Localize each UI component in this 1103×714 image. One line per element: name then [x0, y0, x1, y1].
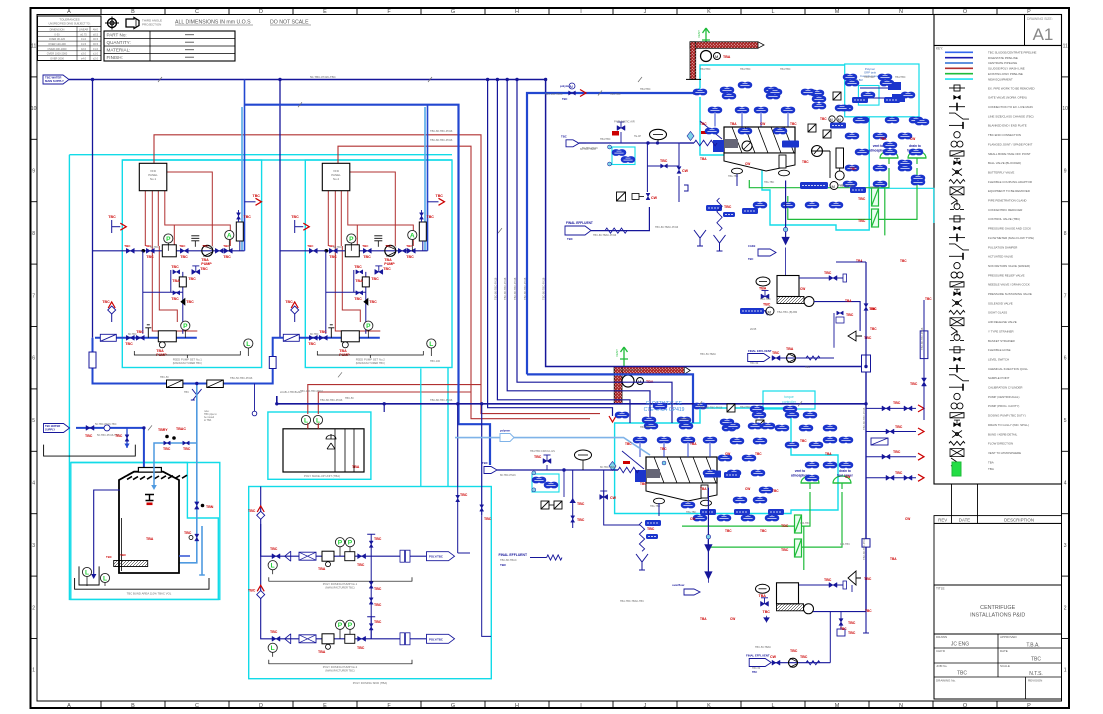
svg-text:OVER 30-120: OVER 30-120: [49, 37, 66, 41]
VFD panel No.2 red wiring: [328, 172, 413, 331]
VFD control panel No.1: [139, 163, 167, 190]
dosing train 1 valve in: [272, 554, 280, 559]
tank roof hatch: [121, 475, 187, 479]
arrow tank inlet: [141, 483, 147, 488]
skid right riser B: [482, 515, 491, 636]
svg-text:BUND / KERB DETAIL: BUND / KERB DETAIL: [988, 432, 1018, 436]
svg-text:TBC: TBC: [805, 366, 810, 369]
svg-text:5: 5: [1064, 418, 1067, 424]
svg-text:TBC: TBC: [772, 351, 780, 355]
dosing red drop b: [317, 423, 319, 429]
svg-text:POLY/TBC: POLY/TBC: [429, 637, 443, 641]
svg-text:FINAL EFFLUENT: FINAL EFFLUENT: [748, 349, 772, 353]
svg-text:80-TBC-TBAC: 80-TBC-TBAC: [580, 148, 596, 151]
svg-text:vent to: vent to: [873, 144, 884, 148]
svg-text:150-TBC: 150-TBC: [870, 186, 880, 189]
upper feed damper: [650, 129, 667, 139]
svg-text:TBC: TBC: [362, 244, 369, 248]
dose point skid 1: [145, 325, 151, 338]
svg-text:POLY DOSING PUMP No.2: POLY DOSING PUMP No.2: [323, 665, 358, 669]
wall upper arrow end: [758, 42, 764, 48]
enclosure polymer dosing skid: [268, 412, 371, 479]
flag tank water: [44, 424, 70, 433]
svg-text:TBC: TBC: [660, 159, 668, 163]
instrument box upper feed: [612, 147, 635, 165]
flow meter skid 1: [191, 236, 199, 247]
svg-text:TBC: TBC: [248, 588, 256, 592]
dosing train 2 outlet flag: [427, 634, 455, 643]
skip No.1 discharge line: [814, 302, 860, 331]
lower feed bubbles box: [532, 477, 546, 483]
svg-text:TBC: TBC: [106, 555, 112, 559]
tag upper e: [805, 182, 821, 188]
svg-text:NEEDLE VALVE / DRAIN COCK: NEEDLE VALVE / DRAIN COCK: [988, 283, 1030, 287]
svg-text:TBC: TBC: [357, 646, 365, 650]
svg-text:TBC: TBC: [865, 609, 872, 613]
svg-text:A: A: [67, 703, 71, 709]
cake skip No.2: [705, 488, 813, 622]
svg-text:TBC: TBC: [500, 563, 507, 567]
skip No.2 discharge line: [813, 612, 869, 633]
svg-text:8: 8: [32, 231, 35, 237]
dosing train 1 flex: [299, 552, 316, 560]
svg-text:APPROVED: APPROVED: [1000, 635, 1018, 639]
svg-text:TBA-TBC: TBA-TBC: [764, 181, 775, 184]
svg-text:50-TBC: 50-TBC: [333, 246, 342, 249]
svg-text:9: 9: [32, 169, 35, 175]
svg-text:OVER 1000-2000: OVER 1000-2000: [47, 52, 68, 56]
svg-text:TBC-80-TBC-PN16: TBC-80-TBC-PN16: [542, 277, 546, 300]
pipe bottom royal header: [93, 338, 279, 384]
svg-text:SOLENOID VALVE: SOLENOID VALVE: [988, 301, 1013, 305]
upper feed squares: [617, 192, 626, 201]
pipe riser bundle A: [546, 80, 866, 367]
svg-text:CW: CW: [760, 122, 765, 126]
isolation valve skid 2 inlet: [309, 248, 317, 253]
svg-text:TBC: TBC: [700, 122, 707, 126]
lower feed gate valve: [543, 459, 551, 464]
instrument bubbles centrifuge No.2: [633, 406, 837, 521]
svg-text:TE-4P: TE-4P: [634, 135, 641, 138]
feed line flowmeter: [104, 425, 110, 431]
svg-text:FINAL EFFLUENT: FINAL EFFLUENT: [499, 553, 528, 557]
svg-text:TBC: TBC: [406, 244, 413, 248]
check valve skid 2: [329, 248, 337, 253]
dosing train 1 pump: [322, 551, 334, 561]
svg-text:TBA/TBC: TBA/TBC: [864, 76, 875, 79]
pipe skid No.1 drop: [244, 80, 246, 251]
enclosure centrifuge No.1 controls: [845, 64, 919, 117]
wall upper horizontal: [690, 42, 758, 49]
svg-text:TBC: TBC: [124, 244, 131, 248]
flex drain lower: [639, 522, 644, 551]
svg-text:E: E: [323, 9, 327, 15]
riser takeoff 3: [866, 456, 916, 458]
controls solid tags: [888, 82, 901, 90]
tag lower e: [724, 472, 740, 478]
svg-text:REV: REV: [938, 518, 947, 523]
svg-text:TBC-80-TBC-PN16: TBC-80-TBC-PN16: [920, 327, 924, 350]
svg-text:CW: CW: [610, 496, 617, 500]
svg-text:OVER 2000: OVER 2000: [50, 57, 64, 61]
svg-text:80-TBC-PN16: 80-TBC-PN16: [500, 474, 516, 477]
riser inline strainer mid: [862, 355, 871, 372]
skip No.1 top line: [799, 277, 843, 279]
upper feed flag: [566, 140, 579, 147]
pipe tank feed: [76, 428, 144, 483]
svg-text:TBC-80-TBAC: TBC-80-TBAC: [500, 558, 517, 562]
macerator skid 2: [345, 245, 359, 257]
svg-text:TBC-50: TBC-50: [345, 397, 354, 400]
svg-text:AIR RELEASE VALVE: AIR RELEASE VALVE: [988, 320, 1017, 324]
svg-text:TBC SLUDGE/CENTRATE PIPELINE: TBC SLUDGE/CENTRATE PIPELINE: [988, 51, 1037, 55]
svg-text:TBC: TBC: [427, 215, 435, 219]
svg-text:CW: CW: [682, 169, 689, 173]
svg-text:TBC: TBC: [846, 313, 854, 317]
svg-text:CONCENTRIC REDUCER: CONCENTRIC REDUCER: [988, 208, 1022, 212]
svg-text:TBA/TBC: TBA/TBC: [640, 88, 651, 91]
svg-text:A: A: [410, 232, 415, 239]
pipe riser bundle C: [507, 80, 650, 424]
svg-text:TBC-80-TBC-PN16: TBC-80-TBC-PN16: [700, 405, 723, 409]
riser basket strainer: [871, 438, 888, 445]
pipe horizontal labels: [320, 129, 723, 410]
junction dot upper feed: [656, 141, 659, 144]
title block signature rows: [934, 634, 1062, 699]
svg-text:CW: CW: [745, 487, 750, 491]
svg-text:L: L: [771, 703, 774, 709]
centrifuge No.1 flex inlet: [694, 140, 717, 146]
junction dot lower feed: [562, 468, 565, 471]
svg-text:SUPPLY: SUPPLY: [45, 427, 55, 431]
pipe drop to pump skid A: [457, 404, 459, 487]
skip No.2 top line: [799, 584, 843, 586]
svg-text:TBC: TBC: [319, 330, 327, 334]
svg-text:POLY DOSING PUMP No.1: POLY DOSING PUMP No.1: [323, 582, 358, 586]
svg-text:TBC: TBC: [790, 122, 797, 126]
svg-text:L: L: [271, 645, 275, 652]
actuated valve skid 1: [192, 269, 200, 274]
svg-text:TBC: TBC: [102, 300, 110, 304]
sight glass column: [920, 331, 928, 359]
lower feed drain branch B: [604, 470, 640, 525]
svg-text:INSTALLATIONS P&ID: INSTALLATIONS P&ID: [970, 613, 1025, 619]
svg-text:TBA/TBC: TBA/TBC: [780, 68, 791, 71]
svg-text:CHK'D: CHK'D: [936, 649, 946, 653]
svg-text:TBN: TBN: [206, 505, 214, 509]
svg-text:TBC-100-TBAC: TBC-100-TBAC: [545, 93, 563, 96]
svg-text:2: 2: [32, 605, 35, 611]
tank heater element: [114, 561, 148, 567]
svg-text:±0.5: ±0.5: [93, 42, 99, 46]
valve skid 2 b: [363, 248, 371, 253]
svg-text:SLUDGE/POLY WASH LINE: SLUDGE/POLY WASH LINE: [988, 67, 1025, 71]
tag lower b: [700, 509, 716, 515]
tank bund instruments: [82, 567, 91, 576]
dosing train 2 flex: [299, 635, 316, 643]
svg-text:TBA: TBA: [700, 617, 707, 621]
svg-text:L: L: [85, 569, 89, 576]
pressure instrument lower 2: [364, 321, 373, 330]
svg-text:FEED PUMP SET No.1: FEED PUMP SET No.1: [173, 358, 203, 362]
svg-text:(MANUFACTURER TBC): (MANUFACTURER TBC): [356, 361, 385, 365]
dosing train 1 suction line: [261, 487, 367, 557]
svg-text:TBC: TBC: [223, 255, 231, 259]
svg-text:TBC-50: TBC-50: [752, 667, 761, 670]
VFD panel No.1 red wiring: [145, 172, 230, 331]
svg-text:50-TBC: 50-TBC: [150, 246, 159, 249]
svg-text:PRESSURE SUSTAINING VALVE: PRESSURE SUSTAINING VALVE: [988, 292, 1032, 296]
pressure gauge skid 1: [164, 234, 173, 243]
svg-text:2: 2: [1064, 605, 1067, 611]
svg-text:8: 8: [1064, 231, 1067, 237]
drain funnel lower 1: [801, 476, 819, 489]
do not scale note: [270, 20, 311, 26]
svg-text:TBA/TBC: TBA/TBC: [740, 68, 751, 71]
svg-text:KEY:: KEY:: [936, 47, 943, 51]
svg-text:TBA/TBC: TBA/TBC: [895, 76, 906, 79]
svg-text:TBC: TBC: [357, 563, 365, 567]
svg-text:TBC-80-TBC-PN16: TBC-80-TBC-PN16: [620, 368, 643, 372]
svg-text:POLY DOSING SKID (TBA): POLY DOSING SKID (TBA): [353, 681, 387, 685]
svg-text:80-TBC-TBAC: 80-TBC-TBAC: [600, 466, 616, 469]
vertical component upper right: [836, 148, 844, 168]
tag lower d: [768, 509, 784, 515]
svg-text:TBA: TBA: [352, 465, 360, 469]
svg-text:TBA: TBA: [988, 467, 994, 471]
svg-text:TBC: TBC: [186, 300, 194, 304]
dosing train 1 sample diamond: [257, 511, 265, 519]
svg-text:BLANKED END / END PLATE: BLANKED END / END PLATE: [988, 124, 1027, 128]
drop arrow skid 1: [245, 201, 256, 203]
svg-text:TBC: TBC: [900, 259, 907, 263]
valve lower skid 1 2: [136, 335, 144, 340]
svg-text:SMALL BORE TAKE OFF POINT: SMALL BORE TAKE OFF POINT: [988, 152, 1031, 156]
tank level nozzle: [145, 495, 154, 501]
pipe right riser: [865, 367, 867, 612]
svg-text:±1.0: ±1.0: [93, 47, 99, 51]
svg-text:FINAL EFFLUENT: FINAL EFFLUENT: [746, 654, 770, 658]
svg-text:11: 11: [1063, 44, 1068, 50]
svg-text:TBA: TBA: [845, 299, 852, 303]
svg-text:TBC: TBC: [567, 237, 573, 241]
svg-text:M: M: [835, 703, 840, 709]
svg-text:(MANUFACTURER TBC): (MANUFACTURER TBC): [325, 668, 354, 672]
inline heater skid 1: [236, 222, 243, 241]
svg-text:FINISH:: FINISH:: [107, 55, 123, 60]
svg-text:PROJECTION: PROJECTION: [142, 23, 161, 27]
svg-text:TBA: TBA: [786, 347, 794, 351]
nrv skid 1: [215, 248, 223, 253]
svg-text:0-30: 0-30: [54, 32, 60, 36]
inline strainer riser mid: [269, 357, 276, 369]
svg-text:CIRCUL HS: CIRCUL HS: [541, 449, 555, 453]
svg-text:TBC: TBC: [285, 300, 293, 304]
svg-text:TBC: TBC: [640, 482, 647, 486]
svg-text:TBC: TBC: [146, 255, 154, 259]
svg-text:PUMP: PUMP: [201, 262, 212, 266]
svg-text:FLANGED JOINT / SPADE POINT: FLANGED JOINT / SPADE POINT: [988, 142, 1033, 146]
sample point skid 2 a: [295, 226, 304, 228]
svg-text:TBC: TBC: [534, 455, 542, 459]
svg-text:CENTRIFUGE: CENTRIFUGE: [980, 605, 1015, 611]
svg-text:TBA: TBA: [700, 487, 707, 491]
enclosure centrifuge feed skid No.1: [122, 160, 261, 368]
svg-text:NON RETURN VALVE (WAFER): NON RETURN VALVE (WAFER): [988, 264, 1030, 268]
svg-text:UNSPECIFIED DIMS SUBJECT TO:: UNSPECIFIED DIMS SUBJECT TO:: [48, 22, 90, 26]
svg-text:TBA: TBA: [318, 567, 326, 571]
valve lower skid 1 1: [126, 335, 134, 340]
svg-text:TBC: TBC: [374, 603, 382, 607]
svg-text:E: E: [323, 703, 327, 709]
svg-text:TBA: TBA: [759, 287, 767, 291]
tag upper c: [830, 123, 846, 129]
micro pipe labels: [95, 93, 880, 649]
upper feed branch valve: [677, 167, 681, 174]
svg-text:TBC: TBC: [244, 215, 252, 219]
svg-text:TOLERANCES: TOLERANCES: [59, 18, 79, 22]
svg-text:TBC: TBC: [163, 447, 171, 451]
scattered grey labels: [530, 68, 906, 453]
enclosure pump skid: [249, 487, 492, 679]
svg-text:1: 1: [1064, 668, 1067, 674]
svg-text:3: 3: [1064, 543, 1067, 549]
progressive cavity pump skid 2: [341, 331, 359, 342]
svg-text:P: P: [183, 323, 188, 330]
flex drain upper: [717, 198, 722, 231]
svg-text:P: P: [349, 236, 354, 243]
tag skip conveyor motor: [740, 308, 764, 314]
svg-text:TBRY: TBRY: [158, 428, 168, 432]
svg-text:TBC: TBC: [85, 434, 93, 438]
svg-text:50-TBC: 50-TBC: [388, 246, 397, 249]
tag upper f: [852, 97, 868, 103]
svg-text:J: J: [644, 9, 647, 15]
svg-text:TBA/TBC: TBA/TBC: [600, 138, 611, 141]
svg-text:TBC: TBC: [724, 205, 732, 209]
svg-text:TBC: TBC: [824, 271, 832, 275]
svg-text:TBC: TBC: [369, 300, 377, 304]
svg-text:TBA/TBC: TBA/TBC: [680, 418, 691, 421]
svg-text:L: L: [103, 575, 107, 582]
svg-text:TBC: TBC: [171, 265, 179, 269]
svg-text:CONTROL VALVE (TBC): CONTROL VALVE (TBC): [988, 217, 1020, 221]
svg-text:TBC: TBC: [363, 255, 371, 259]
sample point skid 1 a: [112, 226, 121, 228]
svg-text:PRESSURE GAUGE AND COCK: PRESSURE GAUGE AND COCK: [988, 227, 1031, 231]
svg-text:polymer: polymer: [560, 84, 572, 88]
svg-text:6: 6: [1064, 356, 1067, 362]
svg-text:TBC: TBC: [561, 135, 567, 139]
svg-text:TBC-50-TBC-PN16: TBC-50-TBC-PN16: [230, 376, 253, 380]
svg-text:DRAWN: DRAWN: [936, 635, 947, 639]
flag site water supply: [43, 75, 69, 84]
vent stack lower: [620, 347, 628, 367]
svg-text:DIGESTATE PIPELINE: DIGESTATE PIPELINE: [988, 56, 1018, 60]
svg-text:TBC: TBC: [781, 524, 789, 528]
svg-text:TBC: TBC: [562, 97, 567, 101]
actuated valve skid 2: [375, 269, 383, 274]
dosing train 2 valve in: [272, 636, 280, 641]
pipe riser bundle E: [488, 80, 613, 417]
svg-text:G: G: [451, 9, 455, 15]
svg-text:No.1: No.1: [150, 177, 157, 181]
svg-text:6: 6: [32, 356, 35, 362]
svg-text:L: L: [271, 563, 275, 570]
riser takeoff 4: [866, 477, 916, 479]
svg-text:TBC-80-TBAC-PN16: TBC-80-TBAC-PN16: [655, 226, 679, 229]
svg-text:CW: CW: [745, 162, 750, 166]
scattered red labels: [625, 117, 932, 631]
lower feed flag: [484, 467, 497, 474]
tag lower a: [645, 520, 661, 526]
final effluent upper flex: [605, 228, 627, 233]
svg-text:TBC: TBC: [270, 547, 278, 551]
svg-text:TBA: TBA: [730, 122, 737, 126]
squares instrument lower: [727, 404, 735, 412]
svg-text:10: 10: [1062, 106, 1068, 112]
dosing trains cross link: [370, 556, 372, 639]
cake flag upper: [758, 249, 776, 256]
skip No.2 valves right: [839, 619, 843, 626]
svg-text:P: P: [348, 622, 353, 629]
svg-text:TBC: TBC: [136, 330, 144, 334]
svg-text:CHEMICAL INJECTION QUILL: CHEMICAL INJECTION QUILL: [988, 367, 1028, 371]
valve recirc skid 1 2: [173, 291, 180, 295]
svg-text:4: 4: [32, 481, 35, 487]
svg-text:TBC: TBC: [800, 655, 808, 659]
svg-text:JOB No.: JOB No.: [936, 664, 948, 668]
svg-text:TBC-80-TBC-PN16: TBC-80-TBC-PN16: [513, 277, 517, 300]
svg-text:PUMP: PUMP: [384, 262, 395, 266]
svg-text:TBA: TBA: [146, 537, 154, 541]
recirc loop skid 1: [143, 251, 183, 334]
svg-text:80-TBC: 80-TBC: [128, 333, 137, 336]
svg-text:C: C: [195, 9, 199, 15]
svg-text:drain to: drain to: [909, 144, 921, 148]
skip No.1 bottom line: [772, 357, 834, 359]
drawing size A1 box: [934, 15, 1062, 46]
valve lower skid 2 1: [309, 335, 317, 340]
svg-text:PNEUMATIC AIR: PNEUMATIC AIR: [614, 120, 635, 124]
svg-text:sCAB-J-TBCB+bH: sCAB-J-TBCB+bH: [280, 390, 302, 394]
skip No.2 bottom pump: [789, 658, 798, 667]
svg-text:TBC: TBC: [179, 244, 186, 248]
svg-text:±0.75: ±0.75: [80, 32, 87, 36]
dosing train 1 damper: [345, 552, 355, 561]
svg-text:TBC BUND AREA 110% TBAC VOL: TBC BUND AREA 110% TBAC VOL: [127, 592, 172, 596]
legend colour key lines: [945, 51, 1037, 82]
svg-text:TBC: TBC: [1031, 657, 1041, 663]
skip No.2 PT gauge: [848, 571, 861, 585]
legend highlighted TBA symbol: [952, 462, 961, 476]
pipe drain upper centrifuge: [749, 168, 917, 235]
svg-text:N: N: [899, 9, 903, 15]
centrifuge No.2 centrate pipe: [658, 503, 660, 516]
svg-text:Y TYPE STRAINER: Y TYPE STRAINER: [988, 329, 1014, 333]
svg-text:BALL VALVE (BLOCKED): BALL VALVE (BLOCKED): [988, 161, 1021, 165]
tank drain valve: [195, 502, 199, 509]
svg-text:TBC-80-TBC-PN16: TBC-80-TBC-PN16: [523, 277, 527, 300]
svg-text:K: K: [707, 9, 711, 15]
svg-text:TBC: TBC: [625, 442, 632, 446]
svg-text:CW: CW: [770, 655, 777, 659]
svg-text:TBC: TBC: [120, 553, 127, 557]
skid bracket 2: [317, 351, 423, 358]
pipe feed upper centrifuge: [527, 93, 694, 374]
dosing red drop a: [307, 423, 309, 429]
svg-text:REVISION: REVISION: [1028, 679, 1042, 683]
